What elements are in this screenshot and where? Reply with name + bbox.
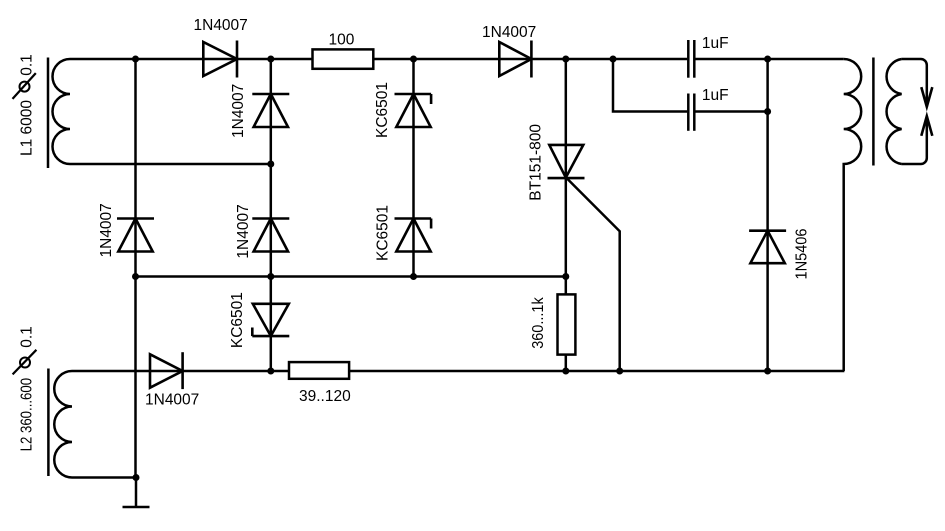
diode D1 1N4007 top left xyxy=(203,41,237,78)
node dot A6 xyxy=(764,56,771,63)
transformer secondary coil xyxy=(887,59,902,164)
svg-text:1N4007: 1N4007 xyxy=(230,84,247,138)
wire vertical V7 xyxy=(766,59,769,371)
svg-text:1uF: 1uF xyxy=(702,87,729,104)
zener Z2 KC6501 lower xyxy=(395,219,432,252)
wire top bus left xyxy=(70,58,687,61)
diode D7 1N4007 bottom xyxy=(150,352,183,389)
transformer core xyxy=(872,58,875,166)
diameter symbol for L1 xyxy=(13,73,36,99)
svg-text:39..120: 39..120 xyxy=(299,388,351,405)
diode D2 1N4007 vertical upper xyxy=(252,94,289,127)
svg-text:0.1: 0.1 xyxy=(18,326,35,348)
diode D5 1N4007 top right xyxy=(499,41,531,78)
wire vertical V2 xyxy=(270,59,273,371)
arrowhead down spark gap xyxy=(921,87,932,107)
svg-text:L1 6000: L1 6000 xyxy=(18,100,35,156)
svg-text:KC6501: KC6501 xyxy=(374,82,391,138)
wire vertical V4 xyxy=(565,59,568,371)
node dot C2m xyxy=(267,273,274,280)
node dot C1m xyxy=(132,273,139,280)
node dot A4 xyxy=(562,56,569,63)
svg-text:KC6501: KC6501 xyxy=(229,292,246,348)
svg-text:1N4007: 1N4007 xyxy=(235,204,252,258)
wire gate of thyristor xyxy=(567,178,620,371)
node dot A1 xyxy=(132,56,139,63)
node dot C4m xyxy=(562,273,569,280)
svg-text:1N4007: 1N4007 xyxy=(98,203,115,257)
diode D6 1N5406 xyxy=(749,231,786,264)
transformer primary coil xyxy=(844,59,862,371)
node dot D4m xyxy=(764,368,771,375)
svg-text:1N4007: 1N4007 xyxy=(145,392,199,409)
resistor R3 360...1k xyxy=(558,294,576,354)
node dot B1 xyxy=(267,161,274,168)
node dot A2 xyxy=(267,56,274,63)
ground xyxy=(123,478,150,508)
wire secondary top lead xyxy=(902,59,927,107)
wire vertical V1 xyxy=(134,59,137,478)
wire vertical V3 xyxy=(412,59,415,277)
zener Z1 KC6501 upper xyxy=(395,94,432,127)
resistor R1 100 xyxy=(313,49,374,68)
node dot A5 xyxy=(610,56,617,63)
svg-text:100: 100 xyxy=(329,32,355,49)
svg-text:0.1: 0.1 xyxy=(18,54,35,76)
node dot D3m xyxy=(616,368,623,375)
svg-text:1uF: 1uF xyxy=(702,35,729,52)
node dot B2 xyxy=(764,108,771,115)
arrowhead up spark gap xyxy=(921,116,932,136)
wire capacitor branch left xyxy=(613,59,687,112)
node dot A3 xyxy=(410,56,417,63)
resistor R2 39..120 xyxy=(289,362,349,379)
diameter symbol for L2 xyxy=(13,350,37,375)
svg-text:1N5406: 1N5406 xyxy=(793,229,810,280)
zener Z3 KC6501 inverted xyxy=(252,304,289,336)
svg-text:1N4007: 1N4007 xyxy=(482,24,536,41)
capacitor C2 1uF xyxy=(688,94,694,131)
capacitor C1 1uF xyxy=(688,40,694,78)
wire secondary bottom lead xyxy=(902,116,927,164)
svg-text:KC6501: KC6501 xyxy=(375,205,392,261)
svg-text:1N4007: 1N4007 xyxy=(194,17,248,34)
node dot D2m xyxy=(562,368,569,375)
inductor L2 core bar xyxy=(47,369,50,477)
wire capacitor branch right xyxy=(695,110,767,113)
node dot C3m xyxy=(410,273,417,280)
thyristor U1 BT151-800 xyxy=(548,145,585,178)
svg-text:L2 360...600: L2 360...600 xyxy=(18,378,35,452)
svg-text:360...1k: 360...1k xyxy=(530,297,547,349)
node dot D1m xyxy=(267,368,274,375)
node dot E1 xyxy=(133,474,140,481)
inductor L2 coil xyxy=(54,371,136,478)
diode D4 1N4007 on V2 lower xyxy=(252,219,289,252)
inductor L1 coil xyxy=(53,59,271,164)
wire top bus right xyxy=(695,58,843,61)
wire bottom bus xyxy=(72,370,844,373)
inductor L1 core bar xyxy=(47,58,50,169)
diode D3 1N4007 on V1 xyxy=(117,219,154,252)
svg-text:BT151-800: BT151-800 xyxy=(528,124,545,201)
wire middle bus xyxy=(136,275,566,278)
